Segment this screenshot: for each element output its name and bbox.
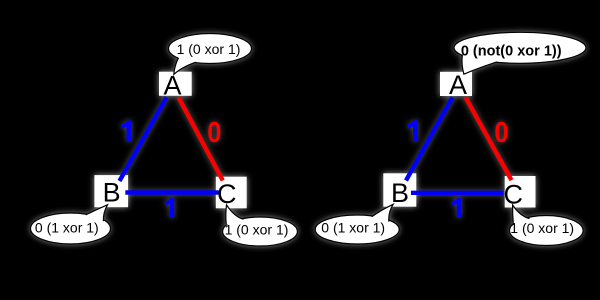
node B box xyxy=(94,175,128,207)
svg-text:B: B xyxy=(103,178,121,208)
svg-text:1 (0 xor 1): 1 (0 xor 1) xyxy=(225,222,289,238)
svg-text:0 (1 xor 1): 0 (1 xor 1) xyxy=(321,220,385,236)
bubble at C: "1 (0 xor 1)" xyxy=(223,205,298,246)
edge label 1 (B-C) xyxy=(165,198,174,218)
node C box xyxy=(505,176,536,208)
bubble at B: "0 (1 xor 1)" xyxy=(315,204,399,244)
bubble at B: "0 (1 xor 1)" xyxy=(31,205,111,244)
svg-text:A: A xyxy=(163,71,181,101)
svg-text:1 (0 xor 1): 1 (0 xor 1) xyxy=(510,220,574,236)
edge label 1 (A-B) xyxy=(408,120,418,141)
bubble at A: "0 (not(0 xor 1))" xyxy=(454,32,586,74)
svg-text:0: 0 xyxy=(494,115,508,148)
svg-text:0 (1 xor 1): 0 (1 xor 1) xyxy=(35,220,99,236)
edge B-C (blue) xyxy=(411,191,503,195)
svg-text:C: C xyxy=(504,179,524,209)
node B box xyxy=(383,173,416,206)
edge label 1 (B-C) xyxy=(452,198,461,218)
node A box xyxy=(440,72,472,96)
node C box xyxy=(216,177,247,209)
svg-text:1 (0 xor 1): 1 (0 xor 1) xyxy=(177,41,241,57)
edge A-B (blue) xyxy=(120,97,167,181)
bubble at C: "1 (0 xor 1)" xyxy=(510,205,584,246)
node A box xyxy=(159,72,192,96)
edge B-C (blue) xyxy=(125,190,218,194)
edge label 1 (A-B) xyxy=(121,121,131,142)
edge A-C (red) xyxy=(466,97,512,180)
edge A-B (blue) xyxy=(406,97,453,180)
edge A-C (red) xyxy=(179,97,223,180)
svg-text:0: 0 xyxy=(207,115,221,148)
svg-text:0 (not(0 xor 1)): 0 (not(0 xor 1)) xyxy=(461,44,562,60)
bubble at A: "1 (0 xor 1)" xyxy=(169,34,252,75)
